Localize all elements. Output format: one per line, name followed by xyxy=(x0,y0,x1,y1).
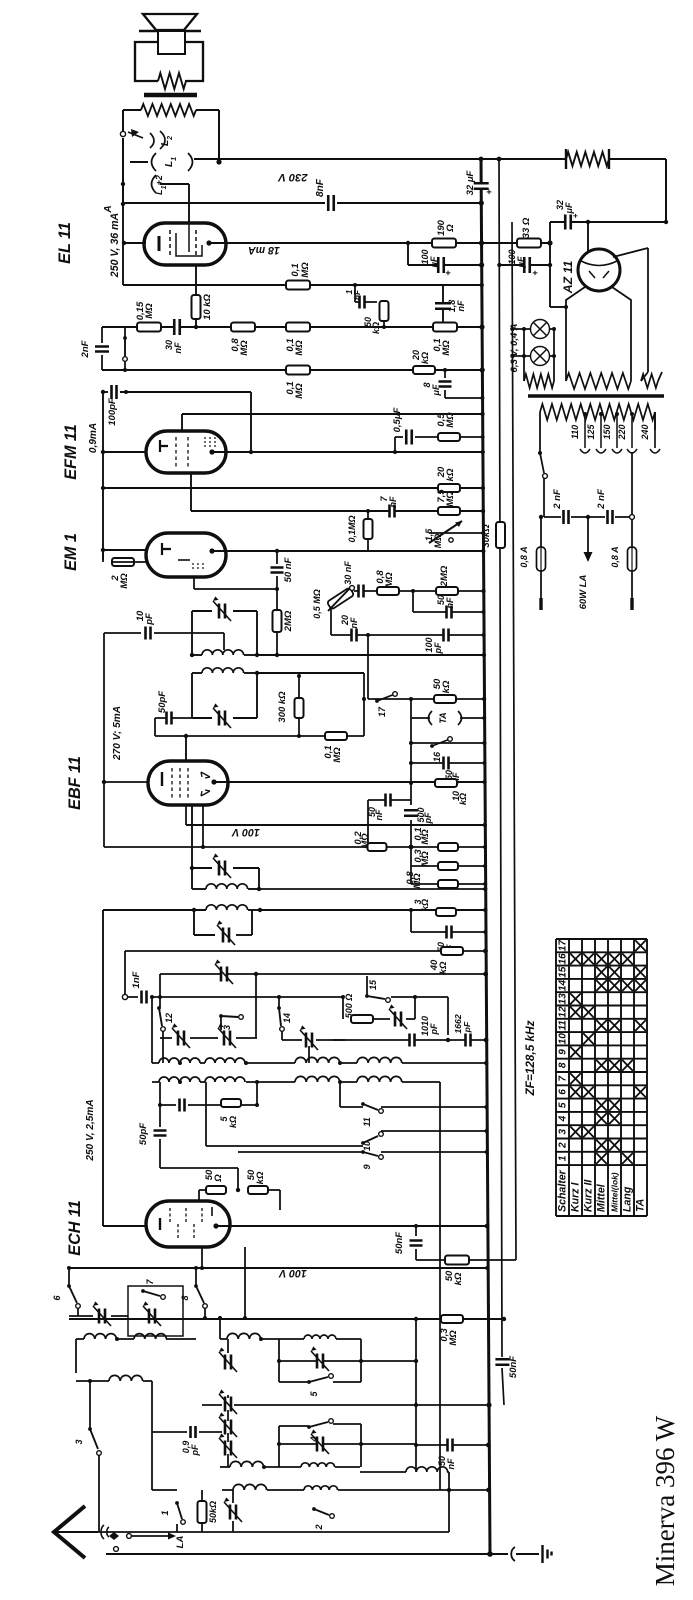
svg-text:300 kΩ: 300 kΩ xyxy=(277,691,288,723)
svg-text:500 Ω: 500 Ω xyxy=(344,994,354,1019)
antenna xyxy=(54,1506,85,1558)
svg-text:kΩ: kΩ xyxy=(438,961,449,974)
capacitor 100pF feedback xyxy=(101,390,105,394)
wire AZ11 top lead xyxy=(587,222,589,251)
svg-text:AZ 11: AZ 11 xyxy=(561,261,575,295)
tube EL11 xyxy=(144,223,226,265)
resistor 0,2 MOhm xyxy=(368,843,387,851)
connector TA xyxy=(410,699,412,718)
wire main HT bus rail xyxy=(481,157,490,1554)
svg-text:11: 11 xyxy=(362,1117,372,1126)
svg-text:0,5 MΩ: 0,5 MΩ xyxy=(312,589,322,619)
svg-text:12: 12 xyxy=(164,1013,174,1023)
svg-text:+: + xyxy=(530,270,540,276)
switch 8 xyxy=(194,1284,198,1288)
svg-text:kΩ: kΩ xyxy=(420,899,430,911)
wire heater rail xyxy=(512,222,516,1260)
svg-text:nF: nF xyxy=(374,809,384,820)
svg-text:2nF: 2nF xyxy=(80,340,91,358)
svg-text:12: 12 xyxy=(558,1006,569,1018)
wire screen line xyxy=(121,202,125,206)
band trimmer top wire xyxy=(160,973,486,975)
capacitor 50nF AVC bottom xyxy=(416,1444,488,1446)
potentiometer 1,5 MOhm xyxy=(429,521,462,543)
capacitor 100uF left xyxy=(406,241,410,245)
capacitor 2nF xyxy=(101,327,103,343)
resistor 0,8 MOhm 884 xyxy=(411,883,485,885)
svg-text:EFM 11: EFM 11 xyxy=(62,424,80,479)
capacitor 1662 pF xyxy=(466,1034,470,1047)
wire screen grid row xyxy=(123,284,482,286)
mains taps xyxy=(583,412,587,416)
svg-text:6,3 V, 0,4 A: 6,3 V, 0,4 A xyxy=(509,323,520,372)
resistor 0,3 MOhm xyxy=(411,865,485,867)
antenna trimmer 6 xyxy=(77,1308,79,1316)
svg-text:kΩ: kΩ xyxy=(255,1171,266,1184)
svg-text:0,1MΩ: 0,1MΩ xyxy=(347,515,357,542)
wire AF coupling row xyxy=(102,326,482,328)
switch 10 xyxy=(361,1141,365,1145)
capacitor padder xyxy=(159,1082,161,1105)
wire 100V AGC row xyxy=(186,824,485,826)
tube EFM11 xyxy=(146,431,226,473)
resistor 0,1MOhm vertical xyxy=(364,519,373,539)
svg-text:ZF=128,5 kHz: ZF=128,5 kHz xyxy=(523,1020,537,1096)
svg-text:MΩ: MΩ xyxy=(420,829,431,845)
wire osc top row xyxy=(125,950,486,952)
svg-text:110: 110 xyxy=(570,425,580,439)
svg-text:33 Ω: 33 Ω xyxy=(521,217,532,238)
svg-text:TA: TA xyxy=(438,712,448,723)
trimmer 7 xyxy=(150,1309,155,1324)
heater winding right xyxy=(641,374,658,388)
capacitor 50nF 932 xyxy=(411,931,485,933)
svg-text:8: 8 xyxy=(558,1062,569,1068)
capacitor 50nF 800 xyxy=(368,799,411,801)
capacitor 20nF xyxy=(330,608,332,635)
wires lamps xyxy=(512,328,530,330)
resistor 7,5 MOhm xyxy=(438,507,460,515)
potentiometer 0,5 MOhm volume xyxy=(327,587,355,609)
wire ant row xyxy=(69,1318,441,1320)
wire coil bottom row xyxy=(233,1531,449,1533)
svg-text:2 nF: 2 nF xyxy=(596,489,607,510)
switch 11 xyxy=(361,1102,365,1106)
wire EM1 anode row xyxy=(212,550,483,552)
svg-text:μF: μF xyxy=(429,256,439,268)
resistor 2 MOhm xyxy=(112,558,134,566)
capacitor 7nF xyxy=(390,505,394,518)
svg-text:230 V: 230 V xyxy=(277,171,309,183)
svg-text:50pF: 50pF xyxy=(138,1123,149,1145)
svg-text:Kurz I: Kurz I xyxy=(570,1182,582,1212)
svg-text:Schalter: Schalter xyxy=(557,1169,569,1212)
svg-text:50pF: 50pF xyxy=(157,691,168,713)
svg-text:30 nF: 30 nF xyxy=(343,561,353,585)
loop with trimmer 4 xyxy=(278,1426,280,1467)
capacitor 8nF xyxy=(329,195,333,211)
capacitor 1010 pF xyxy=(333,1039,486,1041)
svg-text:nF: nF xyxy=(349,617,359,628)
trimmer osc xyxy=(396,1012,401,1027)
trimmer 12 xyxy=(160,1037,172,1039)
svg-text:Mittel(lok): Mittel(lok) xyxy=(610,1172,620,1212)
svg-text:6: 6 xyxy=(558,1089,569,1095)
IF transformer 2 secondary coil xyxy=(103,909,206,911)
switch 9 xyxy=(238,1151,363,1153)
transformer core xyxy=(144,93,197,98)
HT winding xyxy=(566,373,631,389)
svg-text:50 nF: 50 nF xyxy=(283,557,294,582)
wire IF2 to ECH11 grid spine xyxy=(102,910,104,1226)
wire grid line into EL11 xyxy=(123,242,146,244)
svg-text:2 nF: 2 nF xyxy=(552,489,563,510)
svg-text:EBF 11: EBF 11 xyxy=(66,756,84,810)
wire EFM11 lower rows xyxy=(103,487,483,489)
wire mains row xyxy=(544,516,561,518)
capacitor 500pF vertical xyxy=(410,783,412,805)
mains tap 240 xyxy=(654,412,656,448)
switch 15 xyxy=(366,976,368,995)
capacitor 32uF cath xyxy=(566,215,570,230)
resistor 0,15 MOhm xyxy=(137,323,161,332)
resistor 50 kOhm AVC xyxy=(416,1259,516,1261)
trimmer stack mid xyxy=(226,1397,231,1412)
switch 7 xyxy=(141,1289,145,1293)
wire EM1 grid xyxy=(103,549,146,551)
loop with trimmer 5 xyxy=(278,1339,280,1382)
svg-text:3: 3 xyxy=(74,1439,84,1444)
svg-text:100pF: 100pF xyxy=(107,398,118,426)
svg-text:A: A xyxy=(103,205,114,213)
wire AZ11 anode leads xyxy=(566,287,585,372)
trimmer 14 xyxy=(307,1033,312,1048)
wire anode feed to EL11 xyxy=(160,183,189,185)
svg-text:kΩ: kΩ xyxy=(445,468,456,481)
svg-text:240: 240 xyxy=(640,424,650,440)
switch 14 xyxy=(277,1006,281,1010)
switch 12 xyxy=(157,1006,161,1010)
resistor 33 Ohm xyxy=(482,242,551,244)
svg-text:16: 16 xyxy=(558,953,569,965)
resistor 0,1 MOhm 847 xyxy=(438,843,458,851)
speaker LS xyxy=(143,14,197,30)
svg-text:5: 5 xyxy=(558,1102,569,1108)
svg-text:15: 15 xyxy=(368,979,378,990)
ant coil right xyxy=(360,1471,406,1473)
resistor 190 Ohm xyxy=(408,242,482,244)
capacitor 100pF right xyxy=(368,634,484,636)
resistor 20 kOhm xyxy=(413,366,435,374)
switch 3 xyxy=(88,1427,92,1431)
mixer coil row D xyxy=(222,1489,233,1491)
svg-text:100 V: 100 V xyxy=(231,826,260,838)
svg-text:250 V, 2,5mA: 250 V, 2,5mA xyxy=(85,1099,96,1161)
svg-text:100 V: 100 V xyxy=(278,1267,307,1279)
resistor 50 kOhm TA xyxy=(434,695,456,703)
capacitor 50nF AVC xyxy=(414,1224,418,1228)
wire EM1 cathode lead xyxy=(193,577,195,589)
svg-text:MΩ: MΩ xyxy=(294,340,305,356)
band loop 7 xyxy=(128,1286,183,1336)
svg-text:15: 15 xyxy=(558,966,569,978)
svg-text:pF: pF xyxy=(429,1023,439,1035)
svg-text:250 V, 36 mA: 250 V, 36 mA xyxy=(109,213,121,278)
svg-text:8: 8 xyxy=(180,1295,190,1300)
svg-text:10 kΩ: 10 kΩ xyxy=(202,293,213,319)
svg-text:30kΩ: 30kΩ xyxy=(481,524,492,548)
svg-text:LA: LA xyxy=(175,1536,186,1549)
switch 16 xyxy=(411,742,484,744)
svg-text:Kurz II: Kurz II xyxy=(583,1179,595,1212)
svg-text:kΩ: kΩ xyxy=(458,793,468,805)
switch 1 xyxy=(175,1501,179,1505)
svg-text:Ω: Ω xyxy=(445,224,456,233)
svg-text:pF: pF xyxy=(190,1444,200,1456)
mains switch xyxy=(538,451,542,455)
resistor 30kOhm on feed rail xyxy=(496,522,505,548)
wire switch row xyxy=(98,1531,233,1533)
switch 2 xyxy=(312,1507,316,1511)
transformer core bar xyxy=(528,394,664,397)
arrow 60W LA xyxy=(587,517,589,552)
svg-text:3: 3 xyxy=(558,1129,569,1135)
svg-text:kΩ: kΩ xyxy=(371,322,381,334)
svg-text:Lang: Lang xyxy=(622,1186,634,1212)
svg-text:TA: TA xyxy=(635,1199,647,1212)
capacitor 50nF det xyxy=(411,762,485,764)
wire right down to rectifier cathode line xyxy=(665,159,667,222)
svg-text:2MΩ: 2MΩ xyxy=(283,610,294,632)
svg-text:+: + xyxy=(443,270,453,276)
svg-text:MΩ: MΩ xyxy=(239,340,250,356)
svg-text:0,9mA: 0,9mA xyxy=(88,423,99,453)
wire EFM11 anode row xyxy=(103,451,146,453)
svg-text:nF: nF xyxy=(388,496,398,507)
IF transformer 1 secondary trimmer xyxy=(191,673,193,718)
svg-text:10: 10 xyxy=(362,1141,372,1151)
wire rectifier cathode line xyxy=(550,221,588,223)
svg-text:Minerva 396 W: Minerva 396 W xyxy=(650,1415,680,1586)
switch 6 xyxy=(67,1284,71,1288)
IF transformer 2 primary trimmer xyxy=(191,805,193,889)
RF coil row B mixer xyxy=(220,1338,227,1340)
resistor 3 kOhm xyxy=(436,908,456,916)
svg-text:pF: pF xyxy=(462,1021,472,1033)
trimmer 2 xyxy=(231,1505,236,1520)
svg-text:4: 4 xyxy=(309,1436,319,1442)
svg-text:1nF: 1nF xyxy=(131,971,142,988)
capacitor 50nF right xyxy=(412,591,414,612)
switch 4 xyxy=(279,1425,308,1427)
svg-text:11: 11 xyxy=(558,1020,569,1031)
wire AF row 2 xyxy=(102,369,482,371)
resistor 5 kOhm xyxy=(221,1099,241,1107)
capacitor 1,8nF xyxy=(442,285,444,327)
switch on speaker winding xyxy=(120,131,125,136)
svg-text:1: 1 xyxy=(558,1155,569,1161)
capacitor 100uF right xyxy=(499,264,550,266)
svg-text:150: 150 xyxy=(602,424,612,439)
coil L2 xyxy=(150,133,154,148)
tube ECH11 xyxy=(146,1201,230,1247)
svg-text:125: 125 xyxy=(586,424,596,440)
wire IF1 secondary row xyxy=(257,672,364,674)
svg-text:MΩ: MΩ xyxy=(294,383,305,399)
wire left side of transformer xyxy=(122,110,124,131)
resistor 0,1 MOhm right xyxy=(433,323,457,332)
lamp 2 xyxy=(531,347,550,366)
svg-text:17: 17 xyxy=(377,706,387,717)
svg-text:MΩ: MΩ xyxy=(332,747,343,763)
resistor 2MOhm right xyxy=(413,590,484,592)
switch 17 xyxy=(368,698,484,700)
svg-text:50nF: 50nF xyxy=(394,1232,405,1254)
svg-text:MΩ: MΩ xyxy=(441,340,452,356)
capacitor 1nF osc xyxy=(122,994,127,999)
svg-text:MΩ: MΩ xyxy=(384,572,395,588)
wire B+ line from L1 to rectifier xyxy=(194,158,566,160)
resistor 500 Ohm xyxy=(342,997,344,1019)
lamp 1 xyxy=(531,320,550,339)
svg-text:MΩ: MΩ xyxy=(420,851,431,867)
wire EBF11 anode row xyxy=(214,781,485,783)
capacitor 1nF and resistor 50kOhm xyxy=(353,283,357,287)
svg-text:2: 2 xyxy=(314,1524,324,1530)
resistor 300 kOhm xyxy=(298,676,300,699)
svg-text:pF: pF xyxy=(423,812,433,824)
svg-text:pF: pF xyxy=(433,642,443,654)
svg-text:Mittel: Mittel xyxy=(596,1183,608,1212)
wire to oscillator xyxy=(124,951,126,997)
svg-text:ECH 11: ECH 11 xyxy=(66,1200,84,1255)
fuse 0,8A left xyxy=(540,517,542,547)
svg-text:MΩ: MΩ xyxy=(412,873,423,889)
IF transformer 1 primary trimmer xyxy=(191,611,193,655)
wire EFM11 bottom lead xyxy=(190,473,192,511)
svg-text:MΩ: MΩ xyxy=(360,833,371,849)
svg-text:9: 9 xyxy=(362,1164,372,1169)
RF coil row A xyxy=(76,1338,84,1340)
svg-text:16: 16 xyxy=(432,751,442,762)
resistor 0,8 MOhm xyxy=(372,590,413,592)
svg-text:MΩ: MΩ xyxy=(445,412,456,428)
resistor 0,3 MOhm xyxy=(441,1315,463,1323)
capacitor 10pF xyxy=(104,632,141,634)
resistor 0,1 MOhm row2 xyxy=(286,366,310,375)
resistor 0,1 MOhm EBF xyxy=(155,735,364,737)
heater winding left xyxy=(523,356,525,372)
wire osc row xyxy=(244,1247,246,1318)
svg-text:pF: pF xyxy=(144,613,155,626)
svg-text:+: + xyxy=(571,213,580,218)
switch 13 xyxy=(219,1014,223,1018)
output transformer primary winding xyxy=(123,109,141,111)
resistor mains dropper xyxy=(566,152,609,166)
wire IF1 output row xyxy=(257,654,484,656)
svg-text:kΩ: kΩ xyxy=(441,680,452,693)
wire 220 tap down xyxy=(631,452,633,514)
resistor 50 kOhm osc grid xyxy=(248,1186,268,1194)
svg-text:13: 13 xyxy=(558,993,569,1005)
svg-text:Ω: Ω xyxy=(213,1174,224,1183)
svg-text:32 μF: 32 μF xyxy=(465,170,476,195)
svg-text:60W LA: 60W LA xyxy=(578,574,589,609)
svg-text:17: 17 xyxy=(558,939,569,952)
svg-text:+: + xyxy=(484,189,494,195)
svg-text:220: 220 xyxy=(617,424,627,440)
svg-text:0,5μF: 0,5μF xyxy=(392,407,403,432)
wire AZ11 heater right xyxy=(613,248,648,257)
resistor 10 kOhm cathode xyxy=(195,265,197,296)
IF transformer 1 primary coil xyxy=(192,654,202,656)
IF transformer 2 primary coil xyxy=(192,888,206,890)
coil L1+2 xyxy=(152,175,157,193)
svg-text:270 V; 5mA: 270 V; 5mA xyxy=(112,706,123,761)
wire ECH11 anode xyxy=(216,1225,487,1227)
wire EBF diode row xyxy=(202,805,204,847)
capacitor 0,5uF xyxy=(394,437,396,452)
switch tone xyxy=(123,336,127,340)
svg-text:2: 2 xyxy=(558,1142,569,1149)
wire AVC 100V row xyxy=(69,1267,487,1269)
wire grid line EFM11 xyxy=(182,413,483,415)
mixer coil row C xyxy=(220,1466,230,1468)
svg-text:μF: μF xyxy=(564,202,574,214)
resistor 0,1 MOhm xyxy=(286,323,310,332)
capacitor 50pF osc xyxy=(159,1105,161,1127)
trimmer mixer mid xyxy=(226,1355,231,1370)
svg-text:μF: μF xyxy=(431,384,441,396)
resistor 0,8 MOhm xyxy=(231,323,255,332)
svg-text:kΩ: kΩ xyxy=(453,1272,464,1285)
capacitor 2nF mains 1 xyxy=(564,510,568,524)
capacitor 50pF xyxy=(155,717,192,719)
svg-text:4: 4 xyxy=(558,1115,569,1122)
capacitor 50nF on rail xyxy=(495,1360,509,1364)
IF transformer 2 secondary trimmer xyxy=(193,910,195,935)
svg-text:14: 14 xyxy=(558,980,569,992)
resistor 50 kOhm ant xyxy=(198,1501,207,1523)
trimmer 13 xyxy=(225,1031,230,1046)
wire EBF11 top feed xyxy=(185,736,187,761)
svg-text:nF: nF xyxy=(173,342,183,353)
capacitor 50nF EM1 xyxy=(276,551,278,564)
svg-text:14: 14 xyxy=(282,1013,292,1023)
resistor 50 Ohm xyxy=(199,1189,206,1191)
capacitor 2nF mains 2 xyxy=(608,510,612,524)
wire EBF11 grid from 10pF xyxy=(103,633,105,847)
speaker frame with resistor xyxy=(135,42,158,81)
svg-text:MΩ: MΩ xyxy=(119,573,130,589)
svg-text:1: 1 xyxy=(160,1510,170,1515)
svg-text:kΩ: kΩ xyxy=(420,352,430,364)
wire IF2 row xyxy=(259,888,485,890)
capacitor 8uF xyxy=(444,370,446,378)
tube EBF11 xyxy=(148,761,228,805)
oscillator coil row 2 xyxy=(152,1081,159,1083)
svg-text:MΩ: MΩ xyxy=(448,1330,459,1346)
svg-text:MΩ: MΩ xyxy=(445,491,456,507)
resistor 10 kOhm det xyxy=(435,779,457,787)
wire secondary rail xyxy=(499,157,504,1405)
svg-text:8nF: 8nF xyxy=(315,178,326,197)
svg-text:kΩ: kΩ xyxy=(228,1116,238,1128)
wire anode EL11 to output row xyxy=(211,242,408,244)
svg-text:50nF: 50nF xyxy=(508,1356,519,1378)
wire transformer right side xyxy=(218,110,220,162)
switch table xyxy=(556,939,647,1216)
